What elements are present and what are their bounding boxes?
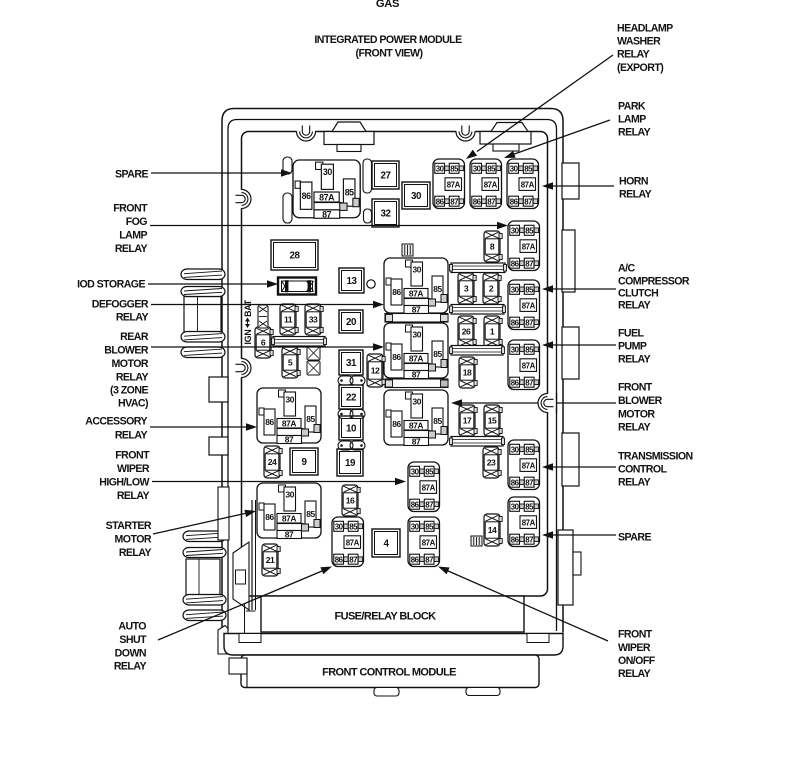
svg-text:86: 86 bbox=[511, 478, 520, 487]
right wall tab 4 bbox=[562, 433, 579, 486]
svg-text:30: 30 bbox=[510, 164, 519, 173]
svg-text:87: 87 bbox=[487, 197, 496, 206]
svg-text:30: 30 bbox=[473, 164, 482, 173]
svg-text:85: 85 bbox=[433, 416, 442, 426]
svg-text:87: 87 bbox=[322, 209, 331, 219]
svg-text:33: 33 bbox=[309, 315, 318, 325]
svg-text:(FRONT VIEW): (FRONT VIEW) bbox=[356, 48, 423, 60]
svg-text:87A: 87A bbox=[522, 301, 536, 310]
svg-text:85: 85 bbox=[306, 414, 315, 424]
svg-text:RELAY: RELAY bbox=[618, 354, 651, 366]
svg-text:87A: 87A bbox=[422, 538, 436, 547]
svg-text:86: 86 bbox=[511, 259, 520, 268]
lower-left rail bbox=[245, 500, 256, 634]
label: HORN RELAY bbox=[619, 176, 652, 201]
svg-text:HEADLAMP: HEADLAMP bbox=[617, 23, 673, 35]
svg-text:87: 87 bbox=[425, 555, 434, 564]
relay transmission control (mini relay, pins 30/85/87A/86/87) bbox=[508, 440, 540, 490]
svg-text:IGN: IGN bbox=[243, 329, 253, 344]
mounting screw (top right) bbox=[456, 122, 475, 141]
svg-text:RELAY: RELAY bbox=[618, 668, 651, 680]
svg-text:BAT: BAT bbox=[243, 299, 253, 317]
svg-text:CLUTCH: CLUTCH bbox=[618, 288, 658, 300]
svg-text:87: 87 bbox=[285, 435, 294, 445]
svg-text:87: 87 bbox=[525, 259, 534, 268]
svg-text:CONTROL: CONTROL bbox=[618, 464, 668, 476]
svg-text:85: 85 bbox=[425, 467, 434, 476]
svg-text:ON/OFF: ON/OFF bbox=[618, 655, 656, 667]
svg-text:87A: 87A bbox=[346, 538, 360, 547]
fuse 11 (fuse 11) bbox=[280, 304, 298, 335]
cavity marker circle bbox=[367, 280, 375, 288]
top mounting tab A bbox=[324, 122, 374, 152]
fuse 6 (fuse 6) bbox=[255, 327, 273, 358]
callout line: FRONT FOG LAMP RELAY bbox=[150, 222, 508, 229]
small fuse pair (right of fuse 5) bbox=[307, 346, 320, 375]
svg-text:87A: 87A bbox=[422, 483, 436, 492]
label: FRONT WIPER ON/OFF RELAY bbox=[618, 629, 656, 681]
relay front blower motor (large relay, pins 30/86/87A/85/87) bbox=[384, 390, 448, 447]
callout line: PARK LAMP RELAY bbox=[504, 120, 610, 158]
callout line: FRONT WIPER HIGH/LOW RELAY bbox=[152, 478, 406, 485]
svg-text:86: 86 bbox=[436, 197, 445, 206]
link connector (between 22 and 10) bbox=[338, 410, 365, 419]
bus bar (above fuses 3/2) bbox=[450, 263, 507, 273]
label: PARK LAMP RELAY bbox=[618, 101, 651, 139]
fuse 18 (fuse 18) bbox=[459, 357, 477, 388]
svg-text:RELAY: RELAY bbox=[117, 490, 150, 502]
relay front wiper high/low (mini relay, pins 30/85/87A/86/87) bbox=[408, 462, 440, 512]
svg-text:23: 23 bbox=[487, 458, 496, 468]
svg-text:30: 30 bbox=[285, 490, 294, 500]
fuse 1 (fuse 1) bbox=[484, 316, 502, 347]
svg-text:FUEL: FUEL bbox=[618, 328, 645, 340]
fuse 2 (fuse 2) bbox=[483, 273, 501, 304]
svg-text:(EXPORT): (EXPORT) bbox=[617, 62, 663, 74]
svg-text:RELAY: RELAY bbox=[115, 430, 148, 442]
relay headlamp washer (export) (mini relay, pins 30/85/87A/86/87) bbox=[433, 159, 465, 209]
cavity 31 (fuse cavity 31) bbox=[339, 350, 363, 375]
svg-text:85: 85 bbox=[525, 285, 534, 294]
label: AUTO SHUT DOWN RELAY bbox=[114, 621, 147, 673]
callout line: SPARE (left) bbox=[151, 169, 292, 177]
svg-text:86: 86 bbox=[392, 352, 401, 362]
callout line: SPARE (right) bbox=[542, 531, 616, 539]
svg-text:WIPER: WIPER bbox=[618, 642, 651, 654]
svg-text:87: 87 bbox=[450, 197, 459, 206]
svg-text:BLOWER: BLOWER bbox=[104, 345, 149, 357]
cavity 13 (fuse cavity 13) bbox=[339, 268, 364, 293]
relay fuel pump (mini relay, pins 30/85/87A/86/87) bbox=[508, 340, 540, 390]
callout line: AUTO SHUT DOWN RELAY bbox=[158, 567, 332, 641]
fuse 8 (fuse 8) bbox=[484, 231, 502, 262]
label: REAR BLOWER MOTOR RELAY (3 ZONE HVAC) bbox=[104, 331, 149, 410]
label: ACCESSORY RELAY bbox=[85, 416, 147, 442]
svg-text:86: 86 bbox=[265, 512, 274, 522]
relay auto shut down (mini relay, pins 30/85/87A/86/87) bbox=[332, 517, 364, 567]
fuse 17 (fuse 17) bbox=[459, 405, 477, 436]
svg-text:RELAY: RELAY bbox=[619, 189, 652, 201]
svg-text:PARK: PARK bbox=[618, 101, 646, 113]
svg-text:15: 15 bbox=[488, 416, 497, 426]
svg-text:30: 30 bbox=[411, 522, 420, 531]
label: SPARE (left) bbox=[115, 169, 148, 181]
right wall lower rail bbox=[558, 530, 581, 605]
svg-text:87A: 87A bbox=[409, 289, 424, 299]
svg-text:HVAC): HVAC) bbox=[118, 398, 148, 410]
svg-text:5: 5 bbox=[288, 358, 293, 368]
cavity 32 (fuse cavity 32) bbox=[372, 199, 399, 227]
label: TRANSMISSION CONTROL RELAY bbox=[618, 451, 693, 489]
left connector stack (upper) bbox=[181, 269, 225, 358]
cavity 30 (fuse cavity 30) bbox=[402, 182, 430, 209]
callout line: FUEL PUMP RELAY bbox=[542, 341, 616, 349]
left wall tab (lower) bbox=[209, 437, 228, 455]
slot (slot C) bbox=[363, 159, 372, 193]
lower housing band bbox=[224, 634, 563, 656]
svg-text:87: 87 bbox=[412, 370, 421, 380]
svg-text:85: 85 bbox=[525, 345, 534, 354]
fuse 5 (fuse 5) bbox=[282, 347, 300, 378]
relay starter motor (large relay, pins 30/86/87A/85/87) bbox=[257, 483, 321, 540]
relay defogger (large relay, pins 30/86/87A/85/87) bbox=[384, 258, 448, 315]
svg-text:RELAY: RELAY bbox=[116, 312, 149, 324]
svg-text:11: 11 bbox=[284, 315, 293, 325]
svg-text:86: 86 bbox=[265, 417, 274, 427]
svg-text:SPARE: SPARE bbox=[618, 532, 651, 544]
fuse/relay panel outline bbox=[242, 132, 548, 597]
link connector (between 10 and 19) bbox=[338, 441, 365, 450]
relay front fog lamp (mini relay, pins 30/85/87A/86/87) bbox=[508, 221, 540, 271]
svg-text:RELAY: RELAY bbox=[116, 372, 149, 384]
label: FRONT FOG LAMP RELAY bbox=[113, 203, 148, 256]
svg-text:BLOWER: BLOWER bbox=[618, 395, 663, 407]
svg-text:FUSE/RELAY BLOCK: FUSE/RELAY BLOCK bbox=[334, 611, 436, 623]
bottom tab 2 bbox=[466, 688, 500, 696]
callout line: TRANSMISSION CONTROL RELAY bbox=[542, 463, 616, 471]
callout line: HEADLAMP WASHER RELAY (EXPORT) bbox=[466, 55, 613, 159]
svg-text:86: 86 bbox=[511, 378, 520, 387]
svg-text:WASHER: WASHER bbox=[617, 36, 661, 48]
svg-text:86: 86 bbox=[392, 287, 401, 297]
svg-text:FOG: FOG bbox=[126, 216, 148, 228]
link connector (between 31 and 22) bbox=[338, 376, 365, 385]
svg-text:SHUT: SHUT bbox=[119, 634, 147, 646]
svg-text:16: 16 bbox=[346, 496, 355, 506]
svg-text:87: 87 bbox=[525, 535, 534, 544]
svg-text:IOD STORAGE: IOD STORAGE bbox=[77, 279, 145, 291]
svg-text:87: 87 bbox=[285, 530, 294, 540]
label: HEADLAMP WASHER RELAY (EXPORT) bbox=[617, 23, 673, 75]
svg-text:87A: 87A bbox=[409, 354, 424, 364]
svg-text:FRONT: FRONT bbox=[618, 382, 653, 394]
svg-text:2: 2 bbox=[489, 284, 494, 294]
svg-text:87: 87 bbox=[412, 437, 421, 447]
svg-text:87A: 87A bbox=[282, 514, 297, 524]
svg-text:85: 85 bbox=[306, 509, 315, 519]
fuse 12 (fuse 12) bbox=[367, 354, 385, 387]
svg-text:PUMP: PUMP bbox=[618, 341, 647, 353]
svg-text:12: 12 bbox=[371, 366, 380, 376]
fuse 24 (fuse 24) bbox=[264, 446, 282, 478]
callout line: DEFOGGER RELAY bbox=[151, 301, 384, 308]
inter-relay connector bar 1 bbox=[385, 314, 448, 323]
svg-text:30: 30 bbox=[412, 397, 421, 407]
svg-text:30: 30 bbox=[511, 345, 520, 354]
right wall tab 3 bbox=[562, 327, 579, 379]
left connector stack (lower) bbox=[183, 531, 226, 621]
svg-text:87: 87 bbox=[425, 500, 434, 509]
svg-text:87A: 87A bbox=[484, 180, 498, 189]
mounting screw (top left) bbox=[297, 122, 316, 141]
svg-text:20: 20 bbox=[346, 317, 357, 328]
svg-text:MOTOR: MOTOR bbox=[618, 409, 655, 421]
svg-text:87A: 87A bbox=[522, 518, 536, 527]
callout line: REAR BLOWER MOTOR RELAY (3 ZONE HVAC) bbox=[151, 343, 384, 351]
label: FUEL PUMP RELAY bbox=[618, 328, 651, 366]
svg-text:A/C: A/C bbox=[618, 263, 635, 275]
fuse 15 (fuse 15) bbox=[484, 405, 502, 436]
svg-text:HIGH/LOW: HIGH/LOW bbox=[99, 477, 149, 489]
svg-text:RELAY: RELAY bbox=[618, 422, 651, 434]
svg-text:86: 86 bbox=[511, 318, 520, 327]
svg-text:DOWN: DOWN bbox=[115, 648, 146, 660]
svg-text:30: 30 bbox=[335, 522, 344, 531]
label: STARTER MOTOR RELAY bbox=[106, 520, 152, 559]
svg-text:REAR: REAR bbox=[120, 331, 149, 343]
svg-text:32: 32 bbox=[380, 209, 391, 220]
svg-text:85: 85 bbox=[349, 522, 358, 531]
svg-text:30: 30 bbox=[412, 330, 421, 340]
cavity 27 (fuse cavity 27) bbox=[372, 161, 399, 189]
left wall rib bbox=[218, 487, 229, 540]
svg-text:86: 86 bbox=[510, 197, 519, 206]
IOD storage fuse holder bbox=[278, 278, 316, 295]
enclosure outer wall bbox=[222, 109, 563, 633]
svg-text:WIPER: WIPER bbox=[117, 463, 150, 475]
mounting screw (right side (on blower line)) bbox=[538, 394, 557, 413]
wall line repair at right screw bbox=[556, 393, 558, 413]
relay park lamp (mini relay, pins 30/85/87A/86/87) bbox=[470, 159, 502, 209]
fuse 21 (fuse 21) bbox=[262, 544, 280, 576]
svg-text:86: 86 bbox=[392, 419, 401, 429]
vent grille (above defogger relay) bbox=[402, 244, 413, 256]
svg-text:87: 87 bbox=[525, 478, 534, 487]
svg-text:COMPRESSOR: COMPRESSOR bbox=[618, 276, 690, 288]
svg-text:86: 86 bbox=[302, 191, 311, 201]
svg-text:30: 30 bbox=[285, 395, 294, 405]
svg-text:30: 30 bbox=[511, 285, 520, 294]
svg-text:85: 85 bbox=[524, 164, 533, 173]
inter-relay connector bar 2 bbox=[385, 379, 448, 388]
svg-text:RELAY: RELAY bbox=[618, 127, 651, 139]
fuse 14 (fuse 14) bbox=[484, 514, 502, 546]
svg-text:30: 30 bbox=[511, 226, 520, 235]
callout line: FRONT WIPER ON/OFF RELAY bbox=[438, 567, 608, 642]
fuse 23 (fuse 23) bbox=[483, 447, 501, 478]
cavity 19 (fuse cavity 19) bbox=[337, 449, 363, 476]
svg-text:RELAY: RELAY bbox=[618, 477, 651, 489]
svg-text:86: 86 bbox=[335, 555, 344, 564]
svg-text:RELAY: RELAY bbox=[618, 300, 651, 312]
label: FRONT WIPER HIGH/LOW RELAY bbox=[99, 450, 150, 503]
front control module housing bbox=[229, 655, 539, 688]
svg-text:87A: 87A bbox=[522, 361, 536, 370]
relay rear blower motor (large relay, pins 30/86/87A/85/87) bbox=[384, 323, 448, 380]
cavity 10 (fuse cavity 10) bbox=[339, 416, 363, 440]
callout line: STARTER MOTOR RELAY bbox=[153, 510, 256, 534]
svg-text:26: 26 bbox=[462, 327, 471, 337]
small fuse element (above fuse 6) bbox=[258, 305, 268, 328]
svg-text:ACCESSORY: ACCESSORY bbox=[85, 416, 147, 428]
svg-text:86: 86 bbox=[411, 500, 420, 509]
svg-text:RELAY: RELAY bbox=[114, 661, 147, 673]
label: SPARE (right) bbox=[618, 532, 651, 544]
svg-text:85: 85 bbox=[525, 502, 534, 511]
svg-text:30: 30 bbox=[511, 502, 520, 511]
svg-text:87: 87 bbox=[525, 378, 534, 387]
callout line: FRONT BLOWER MOTOR RELAY bbox=[451, 399, 616, 407]
callout line: IOD STORAGE bbox=[148, 280, 278, 288]
relay horn (mini relay, pins 30/85/87A/86/87) bbox=[507, 159, 539, 209]
svg-text:87A: 87A bbox=[319, 193, 335, 203]
cavity 4 (fuse cavity 4) bbox=[372, 529, 400, 557]
svg-text:86: 86 bbox=[411, 555, 420, 564]
svg-text:21: 21 bbox=[266, 555, 275, 565]
svg-text:85: 85 bbox=[525, 226, 534, 235]
svg-text:87: 87 bbox=[524, 197, 533, 206]
svg-text:FRONT: FRONT bbox=[618, 629, 653, 641]
svg-text:1: 1 bbox=[490, 327, 495, 337]
callout line: A/C COMPRESSOR CLUTCH RELAY bbox=[542, 285, 616, 293]
svg-text:85: 85 bbox=[433, 284, 442, 294]
bus bar (below fuses 11/33) bbox=[272, 337, 327, 347]
svg-text:87A: 87A bbox=[447, 180, 461, 189]
svg-text:85: 85 bbox=[345, 188, 354, 198]
bus bar (below fuses 26/1) bbox=[450, 346, 505, 356]
relay spare (right column) (mini relay, pins 30/85/87A/86/87) bbox=[508, 497, 540, 547]
svg-text:85: 85 bbox=[525, 445, 534, 454]
mounting screw (left upper) bbox=[232, 190, 251, 209]
fuse 16 (fuse 16) bbox=[342, 485, 360, 516]
svg-text:85: 85 bbox=[433, 349, 442, 359]
svg-text:30: 30 bbox=[436, 164, 445, 173]
cavity 22 (fuse cavity 22) bbox=[339, 385, 363, 409]
fuse 3 (fuse 3) bbox=[458, 273, 476, 304]
svg-text:RELAY: RELAY bbox=[115, 243, 148, 255]
svg-text:86: 86 bbox=[473, 197, 482, 206]
slot (slot A) bbox=[283, 157, 292, 174]
svg-text:27: 27 bbox=[380, 171, 391, 182]
slot (slot D) bbox=[364, 209, 372, 223]
svg-text:87: 87 bbox=[349, 555, 358, 564]
svg-text:87A: 87A bbox=[409, 421, 424, 431]
svg-text:FRONT: FRONT bbox=[113, 203, 148, 215]
svg-text:85: 85 bbox=[487, 164, 496, 173]
svg-text:FRONT: FRONT bbox=[115, 450, 150, 462]
svg-text:30: 30 bbox=[411, 467, 420, 476]
label: A/C COMPRESSOR CLUTCH RELAY bbox=[618, 263, 690, 312]
svg-text:8: 8 bbox=[490, 242, 495, 252]
svg-text:3: 3 bbox=[464, 284, 469, 294]
svg-text:85: 85 bbox=[425, 522, 434, 531]
svg-text:87A: 87A bbox=[522, 461, 536, 470]
svg-text:13: 13 bbox=[346, 276, 357, 287]
cavity 9 (fuse cavity 9) bbox=[290, 448, 318, 475]
svg-text:FRONT CONTROL MODULE: FRONT CONTROL MODULE bbox=[322, 667, 456, 679]
svg-text:6: 6 bbox=[261, 338, 266, 348]
relay accessory (large relay, pins 30/86/87A/85/87) bbox=[257, 388, 321, 445]
svg-text:30: 30 bbox=[323, 167, 332, 177]
svg-text:RELAY: RELAY bbox=[119, 547, 152, 559]
bus bar (below fuses 17/15) bbox=[450, 437, 505, 447]
svg-text:14: 14 bbox=[488, 525, 497, 535]
svg-text:30: 30 bbox=[411, 191, 422, 202]
svg-text:10: 10 bbox=[346, 424, 357, 435]
label: FRONT BLOWER MOTOR RELAY bbox=[618, 382, 663, 434]
fuse 33 (fuse 33) bbox=[305, 304, 323, 335]
svg-text:LAMP: LAMP bbox=[618, 114, 646, 126]
label: IGN-BAT bbox=[243, 299, 253, 344]
vent grille (left of fuse 14) bbox=[471, 536, 482, 546]
svg-text:MOTOR: MOTOR bbox=[112, 358, 149, 370]
callout line: HORN RELAY bbox=[542, 182, 614, 190]
label: DEFOGGER RELAY bbox=[92, 299, 149, 324]
svg-text:86: 86 bbox=[511, 535, 520, 544]
label: IOD STORAGE bbox=[77, 279, 145, 291]
svg-text:19: 19 bbox=[345, 458, 356, 469]
callout line: ACCESSORY RELAY bbox=[150, 423, 257, 431]
mounting screw (left lower) bbox=[232, 359, 251, 378]
cavity 20 (fuse cavity 20) bbox=[339, 310, 363, 333]
svg-text:SPARE: SPARE bbox=[115, 169, 148, 181]
enclosure inner wall bbox=[228, 120, 557, 632]
left wall corner block bbox=[218, 626, 228, 655]
svg-text:GAS: GAS bbox=[376, 0, 400, 10]
svg-text:DEFOGGER: DEFOGGER bbox=[92, 299, 149, 311]
relay spare (top left) (large relay, pins 30/86/87A/85/87) bbox=[293, 160, 360, 219]
svg-text:18: 18 bbox=[463, 368, 472, 378]
left wall tab (upper) bbox=[209, 377, 228, 402]
svg-text:85: 85 bbox=[450, 164, 459, 173]
fuse 26 (fuse 26) bbox=[458, 316, 476, 347]
svg-text:22: 22 bbox=[346, 393, 357, 404]
svg-text:30: 30 bbox=[511, 445, 520, 454]
svg-text:STARTER: STARTER bbox=[106, 520, 152, 532]
svg-text:HORN: HORN bbox=[619, 176, 648, 188]
relay front wiper on/off (mini relay, pins 30/85/87A/86/87) bbox=[408, 517, 440, 567]
svg-text:87A: 87A bbox=[522, 242, 536, 251]
svg-text:(3 ZONE: (3 ZONE bbox=[110, 385, 148, 397]
bottom tab 1 bbox=[374, 688, 399, 697]
left wall bump bbox=[233, 542, 249, 610]
relay A/C compressor clutch (mini relay, pins 30/85/87A/86/87) bbox=[508, 280, 540, 330]
cavity 28 (fuse cavity 28) bbox=[271, 240, 318, 270]
svg-text:LAMP: LAMP bbox=[119, 230, 147, 242]
svg-text:TRANSMISSION: TRANSMISSION bbox=[618, 451, 693, 463]
right wall tab 1 bbox=[562, 163, 579, 199]
top mounting tab B bbox=[480, 123, 531, 152]
svg-text:87A: 87A bbox=[521, 180, 535, 189]
svg-text:30: 30 bbox=[412, 265, 421, 275]
svg-text:17: 17 bbox=[463, 416, 472, 426]
svg-text:28: 28 bbox=[289, 251, 300, 262]
svg-text:24: 24 bbox=[268, 457, 277, 467]
svg-text:INTEGRATED POWER MODULE: INTEGRATED POWER MODULE bbox=[314, 34, 462, 46]
svg-text:87: 87 bbox=[525, 318, 534, 327]
svg-text:RELAY: RELAY bbox=[617, 49, 650, 61]
bus bar (between fuses 3/2 and 26/1) bbox=[450, 305, 506, 315]
